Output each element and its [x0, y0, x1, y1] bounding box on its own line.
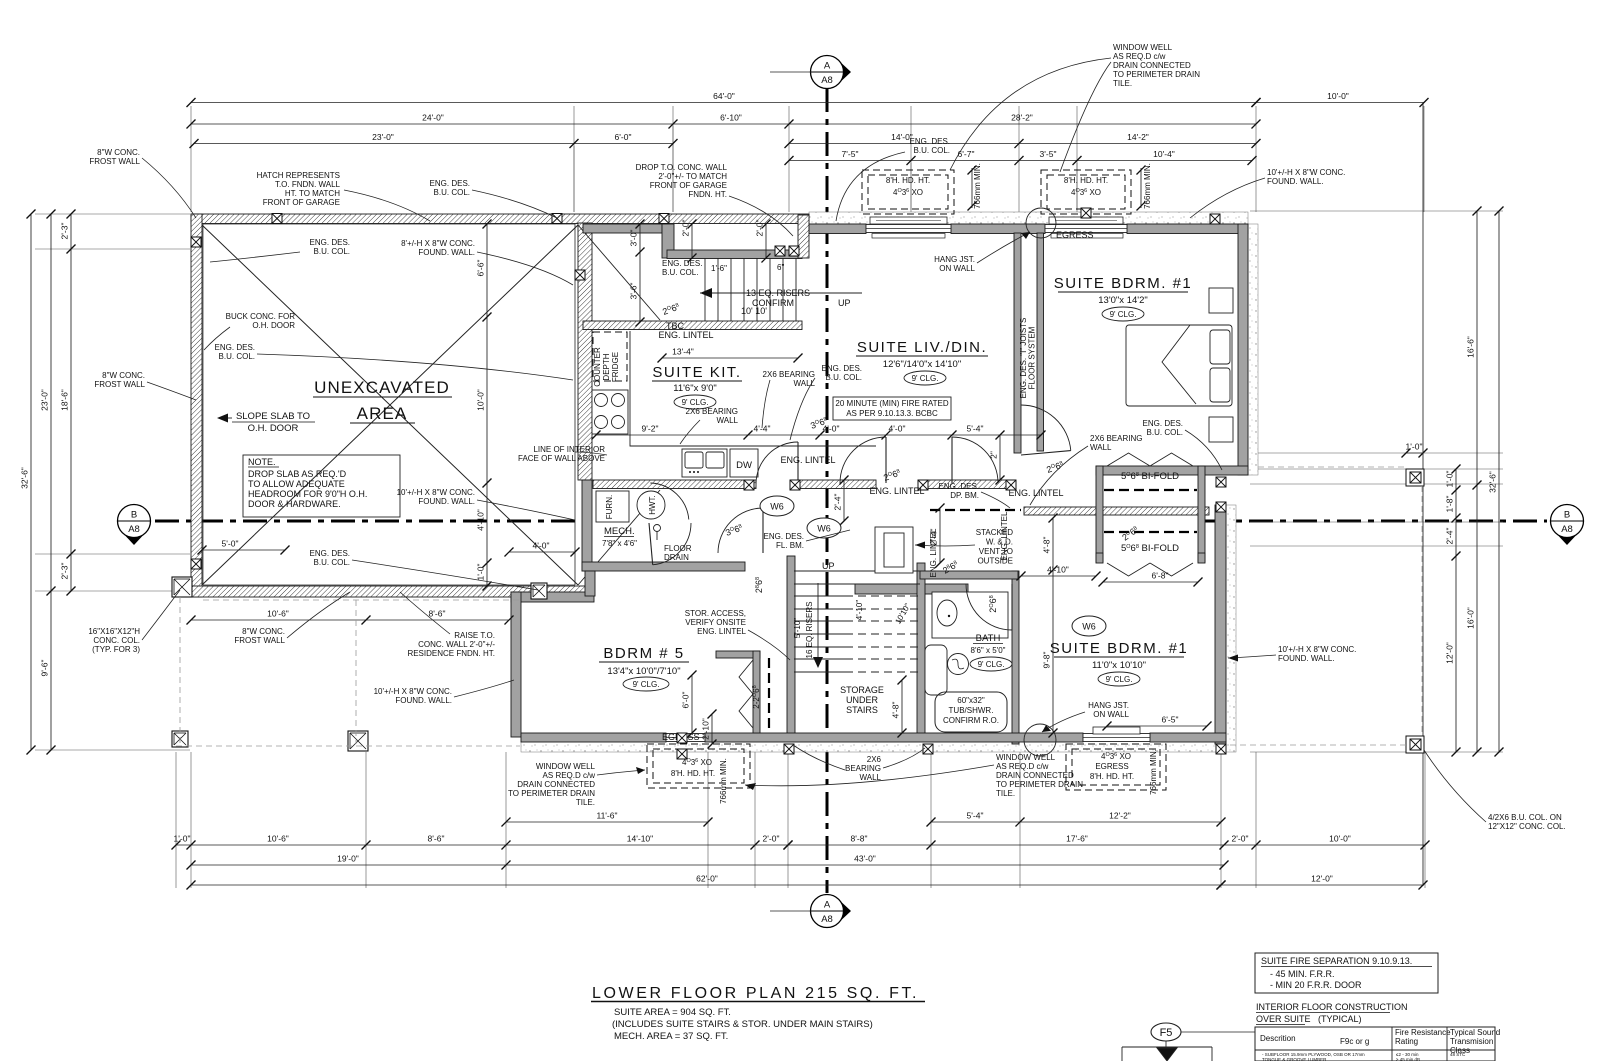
- svg-text:5O68 BI-FOLD: 5O68 BI-FOLD: [1121, 543, 1179, 554]
- svg-text:8'-6": 8'-6": [428, 834, 445, 844]
- closet shelf dashed 2: [1104, 531, 1197, 533]
- door swing mech door 3068: [718, 508, 763, 553]
- wall plan south wall bdrm5 west part: [521, 733, 666, 742]
- big column right top: [1406, 469, 1424, 486]
- svg-text:HANG JST.: HANG JST.: [934, 255, 975, 264]
- svg-text:4'-8": 4'-8": [891, 702, 901, 719]
- wall storage west wall: [787, 556, 795, 737]
- svg-text:9' CLG.: 9' CLG.: [633, 680, 660, 689]
- svg-text:3'-5": 3'-5": [1040, 149, 1057, 159]
- dimension 2-0 landing r: [755, 220, 771, 263]
- wall livdin east wall: [1014, 233, 1021, 453]
- svg-text:16'-6": 16'-6": [1466, 336, 1476, 358]
- svg-text:20 MINUTE (MIN) FIRE RATED: 20 MINUTE (MIN) FIRE RATED: [835, 399, 948, 408]
- note eng des dp bm: [939, 482, 979, 500]
- svg-text:HATCH REPRESENTS: HATCH REPRESENTS: [257, 171, 340, 180]
- column C6 left wall: [191, 237, 201, 247]
- svg-text:FOUND. WALL.: FOUND. WALL.: [418, 248, 475, 257]
- foundation wall kitchen west foundation wall (hatched): [578, 223, 592, 480]
- fire rated box: [833, 397, 951, 420]
- column C17 bottom: [784, 744, 794, 754]
- svg-text:AS REQ.D c/w: AS REQ.D c/w: [996, 762, 1049, 771]
- svg-text:13'4"x 10'0"/7'10": 13'4"x 10'0"/7'10": [607, 666, 680, 677]
- svg-text:2": 2": [989, 451, 999, 459]
- svg-text:DROP T.O. CONC. WALL: DROP T.O. CONC. WALL: [636, 163, 728, 172]
- svg-text:BDRM # 5: BDRM # 5: [603, 645, 684, 662]
- leader leader: [762, 380, 770, 428]
- svg-text:8'-8": 8'-8": [851, 834, 868, 844]
- svg-text:WINDOW WELL: WINDOW WELL: [1113, 43, 1173, 52]
- leader leader: [915, 545, 975, 546]
- svg-text:8'-6": 8'-6": [429, 609, 446, 619]
- dimension top row2: [187, 113, 1261, 129]
- svg-text:9'-8": 9'-8": [1042, 652, 1052, 669]
- svg-text:DRAIN CONNECTED: DRAIN CONNECTED: [1113, 61, 1191, 70]
- note drop to conc wall: [636, 163, 728, 199]
- svg-text:TO ALLOW ADEQUATE: TO ALLOW ADEQUATE: [248, 479, 345, 489]
- witness lines: [35, 106, 1503, 888]
- svg-text:9'-6": 9'-6": [40, 660, 50, 677]
- closet shelf dashed 1: [1104, 489, 1197, 491]
- svg-text:FLOOR: FLOOR: [664, 544, 692, 553]
- svg-text:B.U. COL.: B.U. COL.: [219, 352, 255, 361]
- wall bath north wall: [920, 571, 1018, 579]
- svg-text:TILE.: TILE.: [1113, 79, 1132, 88]
- foundation wall stair landing east foundation wall (hatched): [798, 215, 809, 258]
- svg-text:5'-4": 5'-4": [967, 424, 984, 434]
- svg-text:EGRESS: EGRESS: [1056, 230, 1094, 240]
- note 2x6 bearing bottom: [845, 755, 882, 782]
- svg-text:4'-8": 4'-8": [1042, 537, 1052, 554]
- svg-text:ENG. LINTEL: ENG. LINTEL: [1000, 511, 1009, 560]
- svg-text:TO PERIMETER DRAIN: TO PERIMETER DRAIN: [508, 789, 595, 798]
- svg-text:(TYPICAL): (TYPICAL): [1318, 1014, 1362, 1024]
- svg-text:UNDER: UNDER: [846, 695, 879, 705]
- svg-text:WALL: WALL: [717, 416, 739, 425]
- svg-text:WINDOW WELL: WINDOW WELL: [996, 753, 1056, 762]
- note window well top: [1113, 43, 1200, 88]
- svg-text:FOUND. WALL.: FOUND. WALL.: [395, 696, 452, 705]
- wall suite top wall between windows: [951, 224, 1045, 234]
- svg-text:(INCLUDES SUITE STAIRS & STOR.: (INCLUDES SUITE STAIRS & STOR. UNDER MAI…: [612, 1019, 873, 1030]
- svg-text:5'-0": 5'-0": [222, 539, 239, 549]
- note eng des bu col mid: [215, 343, 255, 361]
- column column right bottom X: [1410, 739, 1421, 750]
- svg-text:TO PERIMETER DRAIN: TO PERIMETER DRAIN: [1113, 70, 1200, 79]
- dimension 32'-6" right: [1488, 207, 1504, 757]
- dimension 6'-8" closet: [1099, 571, 1203, 587]
- svg-text:10'+/-H X 8"W CONC.: 10'+/-H X 8"W CONC.: [1267, 168, 1345, 177]
- svg-text:6'-0": 6'-0": [615, 132, 632, 142]
- svg-text:ENG. LINTEL: ENG. LINTEL: [780, 455, 835, 465]
- svg-text:2X6: 2X6: [867, 755, 882, 764]
- leader leader: [1060, 62, 1111, 172]
- dimension 1'-0" right small: [1402, 442, 1428, 458]
- wall stair-bath wall: [855, 584, 968, 594]
- hot water tank: [637, 491, 665, 519]
- wall bath east wall: [1012, 571, 1019, 744]
- svg-text:24'-0": 24'-0": [422, 113, 444, 123]
- foundation wall garage left frost wall (hatched): [191, 214, 202, 597]
- svg-text:O.H. DOOR: O.H. DOOR: [248, 423, 299, 434]
- foundation wall garage bottom frost wall (hatched): [191, 586, 590, 597]
- dishwasher: [730, 449, 758, 477]
- leader leader: [575, 452, 607, 455]
- svg-text:ENG. DES.: ENG. DES.: [764, 532, 804, 541]
- dimension 2-4 right: [929, 504, 945, 568]
- note eng des bu col 2: [910, 137, 950, 155]
- concrete column 16x16 concrete column S1: [348, 731, 368, 751]
- svg-text:DW: DW: [736, 460, 752, 471]
- svg-text:UP: UP: [822, 561, 835, 571]
- svg-text:11'6"x 9'0": 11'6"x 9'0": [673, 383, 716, 394]
- stairs upper 13 eq risers: [700, 258, 862, 321]
- svg-text:2'-0": 2'-0": [1232, 834, 1249, 844]
- svg-text:T.O. FNDN. WALL: T.O. FNDN. WALL: [275, 180, 341, 189]
- window suite livdin window 4036 XO: [866, 217, 951, 233]
- svg-text:5'-4": 5'-4": [967, 811, 984, 821]
- svg-text:B.U. COL.: B.U. COL.: [1147, 428, 1183, 437]
- wall stair hall south wall (kitchen north): [583, 321, 802, 330]
- svg-text:B: B: [131, 510, 137, 521]
- note line of interior: [518, 445, 605, 463]
- dimension 32'-6" left: [20, 210, 36, 755]
- dimension bottom row1 left: [172, 834, 793, 850]
- wall suite east wall lower: [1215, 505, 1226, 744]
- svg-text:6'-5": 6'-5": [1162, 715, 1179, 725]
- wall suite east wall upper: [1238, 224, 1248, 475]
- svg-text:16'-0": 16'-0": [1466, 607, 1476, 629]
- wall plan south wall center part: [705, 733, 1083, 742]
- detail circle egress top: [1026, 208, 1056, 238]
- svg-text:766mm MIN.: 766mm MIN.: [719, 758, 728, 804]
- svg-text:NOTE.: NOTE.: [248, 457, 276, 467]
- svg-text:WALL: WALL: [1090, 443, 1112, 452]
- floor drain: [654, 525, 661, 532]
- window suite bdrm1 window 4036 XO: [1045, 217, 1127, 233]
- dimension 4'-10" hall: [1017, 565, 1101, 581]
- svg-text:2'-4": 2'-4": [833, 494, 843, 511]
- column C2 top wall: [552, 214, 562, 224]
- leader leader: [352, 560, 538, 590]
- leader leader: [883, 748, 925, 768]
- svg-text:32'-6": 32'-6": [1488, 471, 1498, 493]
- vanity: [932, 592, 1008, 638]
- night table 2: [1209, 417, 1233, 442]
- svg-text:1'-0": 1'-0": [1406, 442, 1423, 452]
- dimension right row3: [1445, 465, 1461, 757]
- note hatch represents: [257, 171, 341, 207]
- svg-text:UNEXCAVATED: UNEXCAVATED: [314, 378, 450, 397]
- svg-text:TONGUE & GROOVE LUMBER: TONGUE & GROOVE LUMBER: [1262, 1057, 1327, 1061]
- construction table: [1255, 1027, 1495, 1061]
- svg-text:8'H. HD. HT.: 8'H. HD. HT.: [671, 769, 715, 778]
- column C3 top wall: [659, 214, 669, 224]
- svg-text:1'-0": 1'-0": [476, 564, 486, 581]
- wall bdrm1 west wall: [1037, 233, 1044, 451]
- svg-text:8"W CONC.: 8"W CONC.: [97, 148, 140, 157]
- svg-text:FROST WALL: FROST WALL: [94, 380, 145, 389]
- svg-text:60"x32": 60"x32": [957, 696, 985, 705]
- leader leader: [287, 592, 350, 638]
- W6 marker: [807, 518, 841, 538]
- concrete band top suite wall: [809, 212, 1248, 224]
- svg-text:ENG. DES.: ENG. DES.: [1143, 419, 1183, 428]
- big column right bottom: [1406, 736, 1424, 753]
- unexcavated area cross diagonal 2: [202, 225, 578, 585]
- fridge dashed: [593, 332, 627, 381]
- svg-text:2'-0"+/- TO MATCH: 2'-0"+/- TO MATCH: [658, 172, 727, 181]
- column C18 bottom: [923, 744, 933, 754]
- note found wall garage2: [397, 488, 475, 506]
- svg-text:9' CLG.: 9' CLG.: [978, 660, 1005, 669]
- window sill interior 2: [1051, 234, 1123, 239]
- svg-text:ENG. DES.: ENG. DES.: [310, 549, 350, 558]
- svg-text:F9c or g: F9c or g: [1340, 1037, 1369, 1046]
- svg-text:MECH.: MECH.: [604, 526, 635, 537]
- svg-text:10'-0": 10'-0": [476, 389, 486, 411]
- leader leader: [1042, 712, 1085, 732]
- svg-text:4'-10": 4'-10": [855, 600, 864, 621]
- svg-text:RAISE T.O.: RAISE T.O.: [454, 631, 495, 640]
- wall bdrm1 south wall: [1096, 466, 1248, 475]
- svg-text:HT. TO MATCH: HT. TO MATCH: [285, 189, 340, 198]
- leader leader: [745, 765, 994, 786]
- svg-text:ENG. DES.: ENG. DES.: [215, 343, 255, 352]
- svg-text:CONC. COL.: CONC. COL.: [93, 636, 140, 645]
- svg-text:SUITE AREA = 904 SQ. FT.: SUITE AREA = 904 SQ. FT.: [614, 1007, 731, 1018]
- note eng des bifold: [1143, 419, 1183, 437]
- column C16 east wall: [1216, 502, 1226, 512]
- leader leader 2x6 mid: [1030, 446, 1088, 505]
- svg-text:ENG. DES.: ENG. DES.: [822, 364, 862, 373]
- svg-text:COUNTER: COUNTER: [593, 347, 602, 387]
- svg-text:FRONT OF GARAGE: FRONT OF GARAGE: [263, 198, 340, 207]
- closet dashed line: [768, 658, 770, 733]
- concrete band right wall outside: [1248, 224, 1258, 475]
- svg-text:FURN.: FURN.: [605, 495, 614, 519]
- section line B-B horizontal right: [1205, 520, 1547, 523]
- svg-text:5O68 BI-FOLD: 5O68 BI-FOLD: [1121, 471, 1179, 482]
- dimension garage bottom inner: [187, 609, 514, 625]
- svg-text:A: A: [824, 900, 831, 911]
- note 2x6 bearing top: [763, 370, 816, 388]
- svg-text:9' CLG.: 9' CLG.: [1110, 310, 1137, 319]
- svg-text:8'H. HD. HT.: 8'H. HD. HT.: [1090, 772, 1134, 781]
- svg-text:2'-10": 2'-10": [701, 718, 711, 740]
- svg-text:13'-4": 13'-4": [672, 347, 694, 357]
- svg-text:11'-6": 11'-6": [596, 811, 617, 821]
- svg-text:SLOPE SLAB TO: SLOPE SLAB TO: [236, 411, 310, 422]
- leader leader: [454, 680, 514, 697]
- svg-text:- 45 MIN. F.R.R.: - 45 MIN. F.R.R.: [1270, 969, 1335, 979]
- svg-text:FL. BM.: FL. BM.: [776, 541, 804, 550]
- svg-text:7'8" x 4'6": 7'8" x 4'6": [602, 539, 637, 548]
- svg-text:B.U. COL.: B.U. COL.: [826, 373, 862, 382]
- svg-text:HEADROOM FOR 9'0"H O.H.: HEADROOM FOR 9'0"H O.H.: [248, 489, 367, 499]
- 766 dim line 1: [971, 168, 973, 208]
- svg-text:14'-2": 14'-2": [1127, 132, 1149, 142]
- svg-text:10'+/-H X 8"W CONC.: 10'+/-H X 8"W CONC.: [1278, 645, 1356, 654]
- dimension 4'-0" garage: [505, 541, 580, 557]
- svg-text:WALL: WALL: [794, 379, 816, 388]
- column C15 east wall: [1216, 477, 1226, 487]
- dimension 6-0 bdrm5: [681, 671, 697, 738]
- svg-text:DRAIN CONNECTED: DRAIN CONNECTED: [996, 771, 1074, 780]
- section line A-A vertical: [826, 88, 829, 893]
- svg-text:48 STC: 48 STC: [1450, 1052, 1466, 1057]
- svg-text:TO PERIMETER DRAIN: TO PERIMETER DRAIN: [996, 780, 1083, 789]
- leader leader: [836, 152, 905, 221]
- wall storage east / bath west wall: [917, 563, 925, 737]
- svg-text:8'H. HD. HT.: 8'H. HD. HT.: [886, 176, 930, 185]
- svg-text:FRIDGE: FRIDGE: [611, 352, 620, 382]
- dimension 62'-0" bottom: [187, 874, 1226, 890]
- dimension 2-10 bdrm5: [701, 710, 717, 749]
- svg-text:ON WALL: ON WALL: [939, 264, 975, 273]
- svg-text:8"W CONC.: 8"W CONC.: [102, 371, 145, 380]
- concrete column 16x16 concrete column SW: [172, 731, 188, 747]
- svg-text:TILE.: TILE.: [996, 789, 1015, 798]
- door swing hall door 2668: [1021, 405, 1071, 455]
- svg-text:WALL: WALL: [860, 773, 882, 782]
- wall bdrm5 closet north stub: [716, 651, 760, 658]
- svg-text:Rating: Rating: [1395, 1037, 1418, 1046]
- basin: [948, 654, 969, 675]
- note frost wall bottom: [234, 627, 285, 645]
- svg-text:12'-0": 12'-0": [1311, 874, 1333, 884]
- toilet: [937, 600, 957, 626]
- svg-text:18'-6": 18'-6": [60, 389, 70, 411]
- svg-text:4'-0": 4'-0": [889, 424, 906, 434]
- dimension stairwell left: [629, 220, 645, 327]
- svg-text:9' CLG.: 9' CLG.: [912, 374, 939, 383]
- foundation wall 2x6 bearing wall (hatched) (hatched): [1024, 507, 1209, 515]
- svg-text:4'-10": 4'-10": [476, 509, 486, 531]
- svg-text:64'-0": 64'-0": [713, 91, 735, 101]
- leader leader: [477, 500, 575, 520]
- svg-text:AS REQ.D c/w: AS REQ.D c/w: [543, 771, 596, 780]
- svg-text:Fire Resistance: Fire Resistance: [1395, 1028, 1451, 1037]
- window well dashed box 2: [1041, 170, 1131, 214]
- svg-text:FOUND. WALL.: FOUND. WALL.: [1267, 177, 1324, 186]
- note window well bottom left: [508, 762, 596, 807]
- svg-text:6'-7": 6'-7": [958, 149, 975, 159]
- section marker B-A8 left: [118, 505, 151, 546]
- dimension 2in: [989, 431, 1005, 485]
- leader leader: [977, 232, 1030, 263]
- dimension 10'-0" top right: [1252, 91, 1429, 107]
- svg-text:766mm MIN.: 766mm MIN.: [973, 163, 982, 209]
- dimension bottom row1 right: [784, 834, 1430, 850]
- svg-text:16 EQ. RISERS: 16 EQ. RISERS: [805, 602, 814, 659]
- note eng des fl bm: [764, 532, 804, 550]
- section marker B-A8 right: [1551, 505, 1584, 546]
- leader leader: [1190, 178, 1265, 218]
- svg-text:DOOR & HARDWARE.: DOOR & HARDWARE.: [248, 499, 341, 509]
- dimension right row2: [1466, 207, 1482, 757]
- W6 marker: [760, 496, 794, 516]
- svg-text:10'+/-H X 8"W CONC.: 10'+/-H X 8"W CONC.: [374, 687, 452, 696]
- dimension 2-4 hall: [833, 476, 849, 526]
- suite fire separation box: [1255, 953, 1438, 993]
- svg-text:LINE OF INTERIOR: LINE OF INTERIOR: [533, 445, 605, 454]
- leader leader: [210, 252, 300, 262]
- bifold doors bifold upper: [1107, 453, 1193, 466]
- svg-text:VERIFY ONSITE: VERIFY ONSITE: [685, 618, 746, 627]
- leader leader: [204, 327, 230, 350]
- column C9 landing: [775, 246, 785, 256]
- dimension kitchen row: [592, 424, 1046, 440]
- svg-text:16"X16"X12"H: 16"X16"X12"H: [88, 627, 140, 636]
- section marker A-A8 bottom: [811, 895, 852, 928]
- column C19 bottom: [1216, 744, 1226, 754]
- column C10 landing: [789, 246, 799, 256]
- dimension 5'-0" garage: [198, 539, 290, 555]
- leader leader: [1228, 655, 1276, 658]
- concrete column concrete column mid: [531, 583, 547, 599]
- W6 marker: [1072, 616, 1106, 636]
- detail circle hang jst bottom: [1024, 724, 1056, 756]
- wall stair landing north wall: [667, 250, 802, 259]
- svg-text:Typical Sound: Typical Sound: [1450, 1028, 1500, 1037]
- 9clg ellipse bath: [970, 657, 1012, 671]
- svg-text:INTERIOR FLOOR CONSTRUCTION: INTERIOR FLOOR CONSTRUCTION: [1256, 1002, 1408, 1012]
- leader frost wall top: [142, 158, 196, 218]
- svg-text:1'-6": 1'-6": [711, 264, 727, 273]
- leader leader: [806, 530, 850, 541]
- counter edge: [630, 331, 876, 446]
- window sill interior 1: [872, 234, 945, 239]
- stove: [592, 390, 628, 434]
- svg-text:3'-6": 3'-6": [629, 283, 639, 300]
- svg-text:8'6" x 5'0": 8'6" x 5'0": [971, 646, 1006, 655]
- svg-text:12'6"/14'0"x 14'10": 12'6"/14'0"x 14'10": [883, 359, 961, 370]
- note 16x16 col: [88, 627, 140, 654]
- svg-text:6'-6": 6'-6": [476, 260, 486, 277]
- section marker A-A8 top: [811, 56, 852, 89]
- leader leader: [400, 592, 450, 634]
- svg-text:CONFIRM R.O.: CONFIRM R.O.: [943, 716, 999, 725]
- svg-text:A8: A8: [821, 75, 833, 86]
- wall bdrm5 north wall west: [511, 592, 594, 602]
- svg-text:TUB/SHWR.: TUB/SHWR.: [949, 706, 994, 715]
- svg-text:Descrition: Descrition: [1260, 1034, 1296, 1043]
- svg-text:W6: W6: [770, 502, 784, 512]
- wall closet east wall upper: [1198, 466, 1205, 562]
- note buck conc: [226, 312, 296, 330]
- svg-text:AS REQ.D c/w: AS REQ.D c/w: [1113, 52, 1166, 61]
- svg-text:32'-6": 32'-6": [20, 467, 30, 489]
- svg-text:STORAGE: STORAGE: [840, 685, 884, 695]
- note 8 conc found wall: [401, 239, 475, 257]
- svg-text:DEPTH: DEPTH: [602, 353, 611, 380]
- note stor access: [685, 609, 747, 636]
- note box: [243, 455, 400, 517]
- eng des dp bm dashed beam: [930, 509, 1021, 511]
- svg-text:6'-8": 6'-8": [1152, 571, 1169, 581]
- column C20 bdrm5: [677, 733, 687, 743]
- svg-text:W6: W6: [817, 524, 831, 534]
- dimension bdrm1 lower left: [1042, 514, 1058, 738]
- sink double: [682, 449, 727, 477]
- concrete column 16x16 concrete column NW: [172, 577, 192, 597]
- column C5 top wall: [1210, 214, 1220, 224]
- svg-text:6": 6": [777, 263, 784, 272]
- svg-text:FLOOR SYSTEM: FLOOR SYSTEM: [1028, 326, 1037, 389]
- note stacked wd: [976, 528, 1013, 566]
- wall plan south wall east part: [1150, 733, 1226, 742]
